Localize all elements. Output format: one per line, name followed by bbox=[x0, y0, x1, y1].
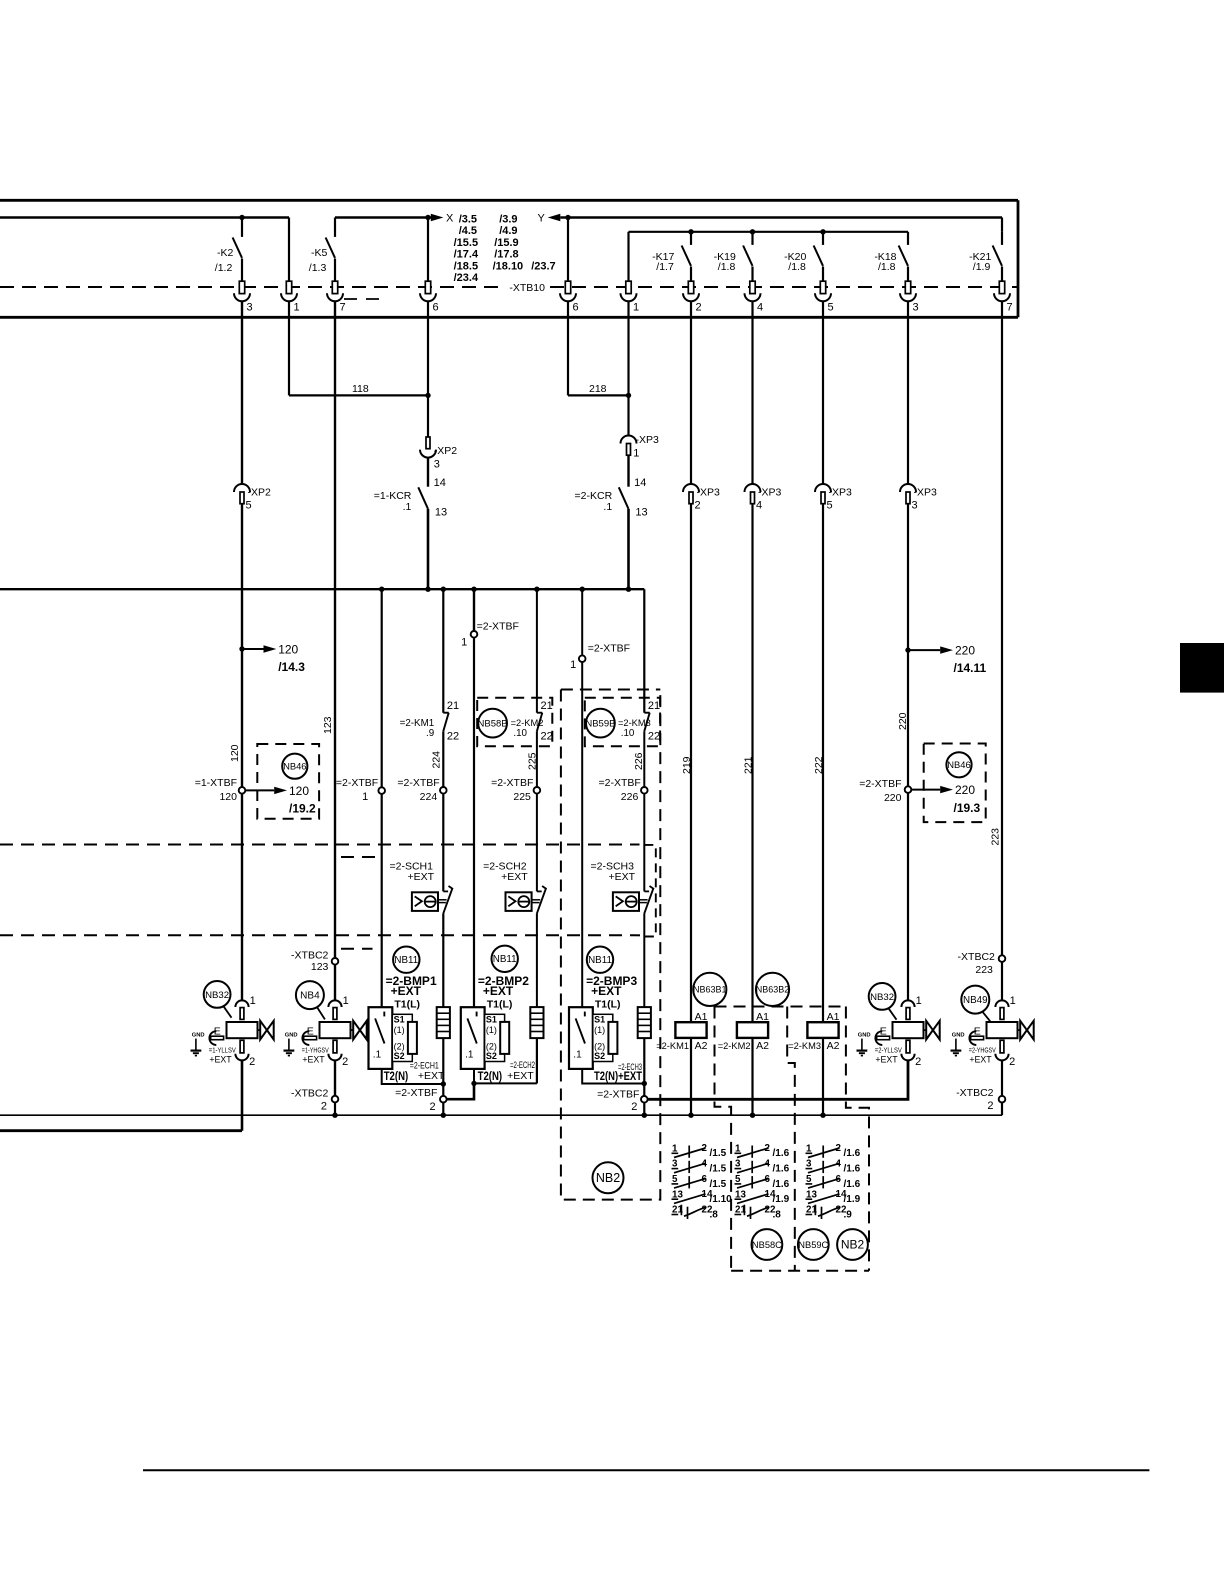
svg-text:.1: .1 bbox=[373, 1050, 382, 1061]
connector -XP3:4 bbox=[745, 484, 761, 504]
svg-text:=1-XTBF: =1-XTBF bbox=[195, 777, 237, 789]
terminal -XTB10:1 bbox=[621, 281, 640, 313]
svg-text:GND: GND bbox=[285, 1033, 298, 1039]
terminal -XTB10:2 bbox=[683, 281, 702, 313]
svg-text:225: 225 bbox=[513, 791, 531, 803]
label NB11 a bbox=[393, 947, 419, 973]
svg-text:224: 224 bbox=[420, 791, 438, 803]
svg-text:220: 220 bbox=[955, 644, 975, 658]
wire heater3 down bbox=[643, 1038, 645, 1096]
connector -XP3:5 bbox=[815, 484, 831, 504]
svg-text:T2(N)+EXT: T2(N)+EXT bbox=[594, 1071, 642, 1083]
svg-text:-XP3: -XP3 bbox=[829, 487, 853, 499]
label NB2 right bbox=[837, 1229, 868, 1260]
leader NB32 right bbox=[889, 1008, 897, 1019]
contact -K20 bbox=[814, 232, 823, 266]
svg-text:/15.5: /15.5 bbox=[454, 237, 478, 249]
svg-text:2: 2 bbox=[429, 1101, 435, 1113]
wire 218 bbox=[568, 394, 629, 396]
svg-text:A1: A1 bbox=[827, 1011, 840, 1023]
label NB63B2 bbox=[756, 973, 790, 1006]
label NB59B bbox=[585, 709, 615, 738]
svg-text:.9: .9 bbox=[426, 728, 434, 739]
svg-text:1: 1 bbox=[294, 302, 300, 314]
terminal =1-XTBF:120 bbox=[195, 777, 237, 803]
svg-text:1: 1 bbox=[461, 636, 467, 648]
wire SCH2 supply bbox=[473, 589, 475, 631]
svg-text:7: 7 bbox=[340, 302, 346, 314]
bus X right segment bbox=[335, 216, 431, 218]
terminal strip -XTB10 dashed line bbox=[0, 286, 1018, 288]
svg-text:.1: .1 bbox=[403, 501, 412, 513]
svg-text:(1): (1) bbox=[594, 1025, 605, 1035]
leader NB49 bbox=[983, 1012, 991, 1022]
terminal -XTBC2:123 bbox=[291, 949, 329, 973]
svg-text:+EXT: +EXT bbox=[875, 1055, 898, 1065]
label NB4 bbox=[296, 981, 324, 1009]
arrow 120 /19.2 bbox=[245, 784, 316, 816]
svg-text:1: 1 bbox=[916, 995, 922, 1007]
svg-text:6: 6 bbox=[433, 302, 439, 314]
wire 226 lower bbox=[643, 794, 645, 892]
svg-text:+EXT: +EXT bbox=[507, 1070, 534, 1082]
junction dot XTB10:6 right tap bbox=[565, 215, 570, 220]
pump unit =2-BMP2 bbox=[461, 974, 535, 1083]
wire 123 to valve bbox=[334, 965, 336, 1001]
svg-text:.10: .10 bbox=[513, 728, 527, 739]
svg-text:5: 5 bbox=[828, 302, 834, 314]
contact =2-KM1 21-22 bbox=[443, 700, 459, 743]
svg-text:222: 222 bbox=[813, 756, 825, 774]
svg-text:5: 5 bbox=[827, 500, 833, 512]
svg-text:13: 13 bbox=[635, 507, 647, 519]
svg-text:NB59B: NB59B bbox=[585, 718, 615, 729]
wire sub-bus to XTB10:1 right bbox=[627, 232, 629, 281]
wire SCH2 to heater bbox=[536, 913, 538, 1007]
svg-text:=2-KM3: =2-KM3 bbox=[618, 718, 651, 728]
svg-text:Y: Y bbox=[538, 213, 546, 225]
svg-text:NB11: NB11 bbox=[394, 955, 418, 966]
junction dot return bus bbox=[642, 1113, 647, 1118]
valve =1-YLLSV bbox=[191, 995, 274, 1068]
wire K18 to XTB10:3 right bbox=[907, 267, 909, 282]
wire SCH1 to heater bbox=[442, 913, 444, 1007]
svg-text:+EXT: +EXT bbox=[969, 1055, 992, 1065]
svg-text:=1-YLLSV: =1-YLLSV bbox=[209, 1045, 236, 1054]
wire 222 bbox=[822, 504, 824, 1023]
svg-text:NB58B: NB58B bbox=[478, 718, 508, 729]
svg-text:120: 120 bbox=[289, 784, 309, 798]
dashed box NB58C group bbox=[715, 1007, 870, 1271]
svg-text:=2-YLLSV: =2-YLLSV bbox=[875, 1045, 902, 1054]
junction dot return bus bbox=[441, 1113, 446, 1118]
junction dot bbox=[688, 229, 693, 234]
svg-text:7: 7 bbox=[1007, 302, 1013, 314]
svg-text:.1: .1 bbox=[603, 501, 612, 513]
return corner left bbox=[0, 1129, 242, 1132]
svg-text:=2-KM1: =2-KM1 bbox=[656, 1041, 689, 1051]
arrow 220 /19.3 bbox=[911, 783, 980, 815]
heater =2-ECH2 bbox=[530, 1007, 543, 1038]
label -XTB10 bbox=[505, 281, 547, 294]
dashed box NB58B bbox=[477, 698, 552, 747]
svg-text:=2-XTBF: =2-XTBF bbox=[598, 777, 640, 789]
svg-text:=2-XTBF: =2-XTBF bbox=[597, 1088, 639, 1100]
terminal =2-XTBF:2 b bbox=[597, 1088, 639, 1113]
wire valve1 down bbox=[241, 1060, 244, 1130]
svg-text:=2-KM2: =2-KM2 bbox=[511, 718, 544, 728]
svg-text:+EXT: +EXT bbox=[391, 984, 422, 998]
junction dot 220 arrow bbox=[905, 647, 910, 652]
svg-text:S1: S1 bbox=[594, 1015, 605, 1025]
wire to BMP2 bbox=[473, 638, 475, 1008]
svg-text:2: 2 bbox=[915, 1056, 921, 1068]
svg-text:120: 120 bbox=[278, 643, 298, 657]
wire KM1 branch bbox=[442, 589, 444, 713]
heater =2-ECH3 bbox=[638, 1007, 651, 1038]
leader NB4 bbox=[317, 1007, 325, 1019]
coil =2-KM2 bbox=[718, 1011, 769, 1052]
heater =2-ECH1 bbox=[437, 1007, 450, 1038]
dashed boundary upper stub bbox=[341, 856, 379, 858]
wire KM2 branch bbox=[536, 589, 538, 713]
feed bus from KCR bbox=[0, 588, 644, 590]
svg-text:2: 2 bbox=[249, 1056, 255, 1068]
svg-text:3: 3 bbox=[913, 302, 919, 314]
junction dot BMP1 return bbox=[441, 1081, 446, 1086]
svg-text:(1): (1) bbox=[394, 1025, 405, 1035]
svg-text:-XTBC2: -XTBC2 bbox=[291, 1088, 329, 1100]
terminal -XTB10:4 bbox=[745, 281, 764, 313]
junction dot feed bus bbox=[441, 587, 446, 592]
svg-text:NB2: NB2 bbox=[841, 1238, 865, 1252]
contact -K5 bbox=[326, 218, 335, 258]
svg-text:S2: S2 bbox=[486, 1051, 497, 1061]
svg-text:(1): (1) bbox=[486, 1025, 497, 1035]
svg-text:T2(N): T2(N) bbox=[384, 1071, 409, 1083]
svg-text:/19.3: /19.3 bbox=[954, 801, 981, 815]
enclosure top border bbox=[0, 199, 1018, 202]
svg-text:/1.8: /1.8 bbox=[718, 261, 736, 273]
junction dot 218 bbox=[626, 393, 631, 398]
dashed enclosure NB2 tall box bbox=[561, 690, 660, 1200]
wire XTB10:2 to XP3:2 bbox=[690, 301, 692, 484]
svg-text:2: 2 bbox=[321, 1101, 327, 1113]
svg-text:224: 224 bbox=[431, 751, 443, 769]
svg-text:2: 2 bbox=[695, 500, 701, 512]
wire XTBC2a to bus bbox=[334, 1102, 336, 1115]
svg-text:A2: A2 bbox=[695, 1040, 708, 1052]
svg-text:GND: GND bbox=[952, 1033, 965, 1039]
junction dot return bus bbox=[332, 1113, 337, 1118]
svg-text:2: 2 bbox=[696, 302, 702, 314]
terminal =2-XTBF:226 bbox=[598, 777, 640, 803]
label NB59C bbox=[798, 1229, 829, 1260]
contact -K21 bbox=[993, 232, 1002, 266]
svg-text:+EXT: +EXT bbox=[302, 1055, 325, 1065]
svg-text:/1.3: /1.3 bbox=[309, 262, 327, 274]
wire K19 to XTB10:4 bbox=[751, 267, 753, 282]
terminal -XTB10:1 bbox=[281, 281, 300, 313]
dashed boundary lower stub bbox=[341, 948, 373, 950]
svg-text:5: 5 bbox=[246, 500, 252, 512]
svg-text:.9: .9 bbox=[844, 1209, 853, 1220]
terminal -XTB10:3 bbox=[900, 281, 919, 313]
wire 225 lower bbox=[536, 794, 538, 892]
svg-text:T2(N): T2(N) bbox=[478, 1071, 503, 1083]
svg-text:/14.3: /14.3 bbox=[278, 660, 305, 674]
enclosure bottom border bbox=[0, 316, 1018, 319]
svg-text:+EXT: +EXT bbox=[418, 1070, 445, 1082]
svg-text:1: 1 bbox=[633, 302, 639, 314]
svg-text:NB59C: NB59C bbox=[798, 1240, 828, 1250]
wire BMP1 return bbox=[382, 1069, 444, 1084]
svg-text:3: 3 bbox=[912, 500, 918, 512]
sheet refs X bbox=[454, 214, 479, 285]
wire 223 bbox=[1001, 301, 1003, 955]
contact =1-KCR bbox=[374, 458, 447, 519]
junction dot feed bus bbox=[580, 587, 585, 592]
svg-text:1: 1 bbox=[1010, 995, 1016, 1007]
wire XTBF2b to bus bbox=[643, 1103, 645, 1116]
contact -K17 bbox=[682, 232, 691, 266]
contact -K18 bbox=[899, 232, 908, 266]
wire XTBF2 to valve 2-YLLSV bbox=[648, 1061, 908, 1100]
svg-text:1: 1 bbox=[343, 995, 349, 1007]
svg-text:NB2: NB2 bbox=[596, 1171, 620, 1185]
svg-text:219: 219 bbox=[681, 756, 693, 774]
terminal =2-XTBF:2 a bbox=[395, 1087, 437, 1113]
svg-text:NB46: NB46 bbox=[947, 759, 970, 770]
label NB32 left bbox=[204, 981, 231, 1008]
svg-text:T1(L): T1(L) bbox=[487, 999, 513, 1011]
contact ladder =2-KM3 cross-ref bbox=[806, 1143, 861, 1220]
svg-text:-XP3: -XP3 bbox=[914, 487, 938, 499]
svg-text:=2-XTBF: =2-XTBF bbox=[395, 1087, 437, 1099]
svg-text:A2: A2 bbox=[827, 1040, 840, 1052]
contact ladder =2-KM2 cross-ref bbox=[735, 1143, 790, 1220]
svg-text:=1-YHGSV: =1-YHGSV bbox=[302, 1045, 329, 1054]
wire XTB10:6 to XP2:3 bbox=[427, 301, 429, 437]
contact =2-KM2 21-22 bbox=[537, 700, 553, 743]
svg-text:NB46: NB46 bbox=[283, 760, 306, 771]
svg-text:120: 120 bbox=[219, 791, 237, 803]
svg-text:S1: S1 bbox=[486, 1015, 497, 1025]
svg-text:+EXT: +EXT bbox=[591, 984, 622, 998]
svg-text:/18.10: /18.10 bbox=[493, 260, 524, 272]
svg-text:/1.7: /1.7 bbox=[656, 261, 674, 273]
svg-text:NB58C: NB58C bbox=[752, 1240, 782, 1250]
pressure switch =2-SCH3 bbox=[591, 860, 654, 913]
wire XTBF2a to bus bbox=[442, 1103, 444, 1116]
svg-text:=2-YHGSV: =2-YHGSV bbox=[969, 1045, 996, 1054]
svg-text:NB63B1: NB63B1 bbox=[693, 985, 727, 995]
contact =2-KCR bbox=[575, 455, 648, 518]
svg-text:/1.6: /1.6 bbox=[844, 1148, 861, 1159]
svg-text:/1.8: /1.8 bbox=[878, 261, 896, 273]
wire XTB10:5 to XP3:5 bbox=[822, 301, 824, 484]
svg-text:+EXT: +EXT bbox=[209, 1055, 232, 1065]
label NB49 bbox=[961, 986, 989, 1014]
arrow 220 /14.11 bbox=[908, 644, 987, 676]
dashed boundary upper bbox=[0, 844, 640, 846]
wire 224 lower bbox=[442, 794, 444, 892]
svg-text:=2-XTBF: =2-XTBF bbox=[859, 778, 901, 790]
svg-text:2: 2 bbox=[987, 1100, 993, 1112]
svg-text:22: 22 bbox=[447, 731, 459, 743]
wire K21 to XTB10:7 right bbox=[1001, 267, 1003, 282]
connector -XP2:5 bbox=[234, 484, 250, 504]
terminal =2-XTBF:224 bbox=[397, 777, 439, 803]
wire KCR1 to feed line bbox=[427, 509, 430, 589]
junction dot K2 tap bbox=[239, 215, 244, 220]
svg-text:=2-KM2: =2-KM2 bbox=[718, 1041, 751, 1051]
wire 220 lower bbox=[907, 793, 909, 1001]
svg-text:226: 226 bbox=[633, 752, 645, 770]
svg-text:=2-XTBF: =2-XTBF bbox=[397, 777, 439, 789]
sub-bus K17-K18 bbox=[629, 231, 909, 233]
terminal -XTBC2:223 bbox=[958, 951, 996, 976]
terminal -XTB10:7 bbox=[327, 281, 346, 313]
wire KM3 coil to bus bbox=[822, 1038, 824, 1115]
junction dot feed bus bbox=[379, 587, 384, 592]
terminal =2-XTBF:1 c bbox=[570, 643, 630, 671]
wire XTB10:4 to XP3:4 bbox=[751, 301, 753, 484]
svg-text:221: 221 bbox=[743, 756, 755, 774]
wire XTB10:6 right down bbox=[567, 301, 569, 395]
svg-text:GND: GND bbox=[192, 1033, 205, 1039]
terminal -XTBC2:2 a bbox=[291, 1088, 329, 1113]
label NB46 right bbox=[946, 752, 971, 777]
svg-text:14: 14 bbox=[634, 477, 646, 489]
svg-text:/1.5: /1.5 bbox=[710, 1148, 727, 1159]
terminal =2-XTBF:225 bbox=[491, 777, 533, 803]
svg-text:=2-XTBF: =2-XTBF bbox=[336, 777, 378, 789]
dashed SCH3 pocket bbox=[644, 845, 656, 937]
dashed boundary lower bbox=[0, 934, 640, 936]
svg-text:S2: S2 bbox=[394, 1051, 405, 1061]
terminal -XTB10:7 bbox=[994, 281, 1013, 313]
label NB11 c bbox=[587, 947, 613, 973]
svg-text:-XP3: -XP3 bbox=[697, 487, 721, 499]
dashed box NB46 right bbox=[924, 744, 986, 823]
wire 118 bbox=[289, 394, 428, 396]
wire K5 to XTB10:7 bbox=[334, 259, 336, 282]
svg-text:+EXT: +EXT bbox=[483, 984, 514, 998]
svg-text:=2-XTBF: =2-XTBF bbox=[477, 620, 519, 632]
svg-text:/4.9: /4.9 bbox=[499, 225, 517, 237]
svg-text:-XP3: -XP3 bbox=[636, 434, 660, 446]
valve =2-YHGSV bbox=[951, 995, 1034, 1068]
svg-text:.1: .1 bbox=[465, 1050, 474, 1061]
svg-text:X: X bbox=[446, 213, 454, 225]
svg-text:+EXT: +EXT bbox=[609, 871, 636, 883]
wire KM1 coil to bus bbox=[690, 1038, 692, 1115]
connector -XP3:2 bbox=[683, 484, 699, 504]
svg-text:120: 120 bbox=[229, 744, 241, 762]
dashes near terminal 7 bbox=[344, 298, 382, 300]
svg-text:-XP3: -XP3 bbox=[758, 487, 782, 499]
svg-text:123: 123 bbox=[311, 961, 329, 973]
svg-text:1: 1 bbox=[362, 791, 368, 803]
svg-text:NB32: NB32 bbox=[870, 992, 894, 1003]
wire XTB10:1 down bbox=[288, 301, 290, 395]
svg-text:2: 2 bbox=[342, 1056, 348, 1068]
terminal -XTB10:5 bbox=[815, 281, 834, 313]
svg-text:=2-KM3: =2-KM3 bbox=[788, 1041, 821, 1051]
svg-text:A1: A1 bbox=[695, 1011, 708, 1023]
wire BMP2 to XTBF2a bbox=[447, 1083, 474, 1099]
svg-text:T1(L): T1(L) bbox=[595, 999, 621, 1011]
svg-text:/1.10: /1.10 bbox=[710, 1194, 733, 1205]
junction dot XTB10:6 tap bbox=[425, 215, 430, 220]
svg-text:22: 22 bbox=[541, 731, 553, 743]
svg-text:-XTBC2: -XTBC2 bbox=[958, 951, 996, 963]
svg-text:-XP2: -XP2 bbox=[248, 487, 272, 499]
svg-text:NB49: NB49 bbox=[963, 995, 988, 1006]
svg-text:220: 220 bbox=[955, 783, 975, 797]
svg-text:220: 220 bbox=[884, 792, 902, 804]
wire SCH1 supply bbox=[381, 589, 383, 787]
svg-text:NB63B2: NB63B2 bbox=[756, 985, 790, 995]
label NB46 left bbox=[282, 754, 307, 779]
svg-text:21: 21 bbox=[447, 700, 459, 712]
svg-text:/17.4: /17.4 bbox=[454, 249, 479, 261]
svg-text:/19.2: /19.2 bbox=[289, 802, 316, 816]
label NB32 right bbox=[869, 983, 896, 1010]
arrow 120 /14.3 bbox=[242, 643, 305, 675]
sheet refs Y bbox=[493, 214, 556, 273]
wire Y bus corner to K21 bbox=[1001, 218, 1003, 232]
svg-text:NB11: NB11 bbox=[493, 954, 517, 965]
svg-text:/3.5: /3.5 bbox=[459, 214, 477, 226]
svg-text:3: 3 bbox=[247, 302, 253, 314]
wire SCH3 to heater bbox=[643, 913, 645, 1007]
junction dot return bus bbox=[750, 1113, 755, 1118]
wire 123 upper bbox=[334, 301, 336, 958]
valve =1-YHGSV bbox=[284, 995, 367, 1068]
terminal -XTB10:3 bbox=[234, 281, 253, 313]
svg-text:21: 21 bbox=[541, 700, 553, 712]
svg-text:=2-XTBF: =2-XTBF bbox=[588, 643, 630, 655]
terminal -XTB10:6 bbox=[560, 281, 579, 313]
wire 220 upper bbox=[907, 504, 909, 787]
svg-text:/1.6: /1.6 bbox=[773, 1164, 790, 1175]
junction dot feed bus bbox=[425, 587, 430, 592]
svg-text:-K2: -K2 bbox=[217, 247, 234, 259]
svg-text:-XTBC2: -XTBC2 bbox=[956, 1087, 994, 1099]
svg-text:=2-XTBF: =2-XTBF bbox=[491, 777, 533, 789]
svg-text:/1.6: /1.6 bbox=[844, 1164, 861, 1175]
wire 226 bbox=[643, 731, 645, 787]
svg-text:123: 123 bbox=[322, 716, 334, 734]
wire valve4 down bbox=[1001, 1060, 1003, 1096]
svg-text:-K5: -K5 bbox=[311, 247, 328, 259]
svg-text:/14.11: /14.11 bbox=[954, 661, 987, 675]
connector -XP3:1 bbox=[621, 436, 637, 456]
svg-text:.10: .10 bbox=[621, 728, 635, 739]
svg-text:/18.5: /18.5 bbox=[454, 260, 478, 272]
terminal =2-XTBF:1 a bbox=[336, 777, 378, 803]
svg-text:T1(L): T1(L) bbox=[394, 999, 420, 1011]
junction dot bbox=[820, 229, 825, 234]
svg-text:/1.9: /1.9 bbox=[973, 261, 991, 273]
junction dot BMP2 return bbox=[471, 1081, 476, 1086]
wire KM2 coil to bus bbox=[751, 1038, 753, 1115]
wire to BMP3 bbox=[581, 662, 583, 1007]
svg-text:S1: S1 bbox=[394, 1015, 405, 1025]
junction dot feed bus bbox=[471, 587, 476, 592]
